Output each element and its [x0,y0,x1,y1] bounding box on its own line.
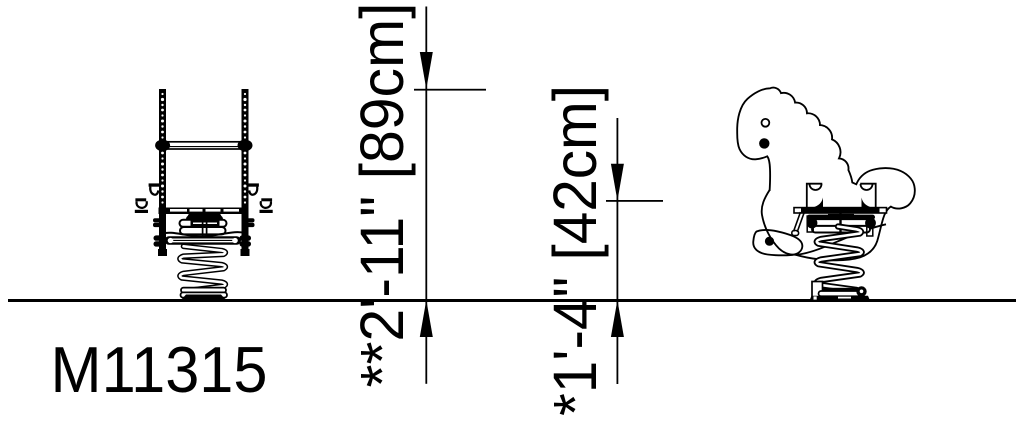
svg-text:M11315: M11315 [51,333,268,406]
svg-text:*1'-4" [42cm]: *1'-4" [42cm] [541,85,610,416]
svg-text:**2'-11" [89cm]: **2'-11" [89cm] [348,3,417,388]
